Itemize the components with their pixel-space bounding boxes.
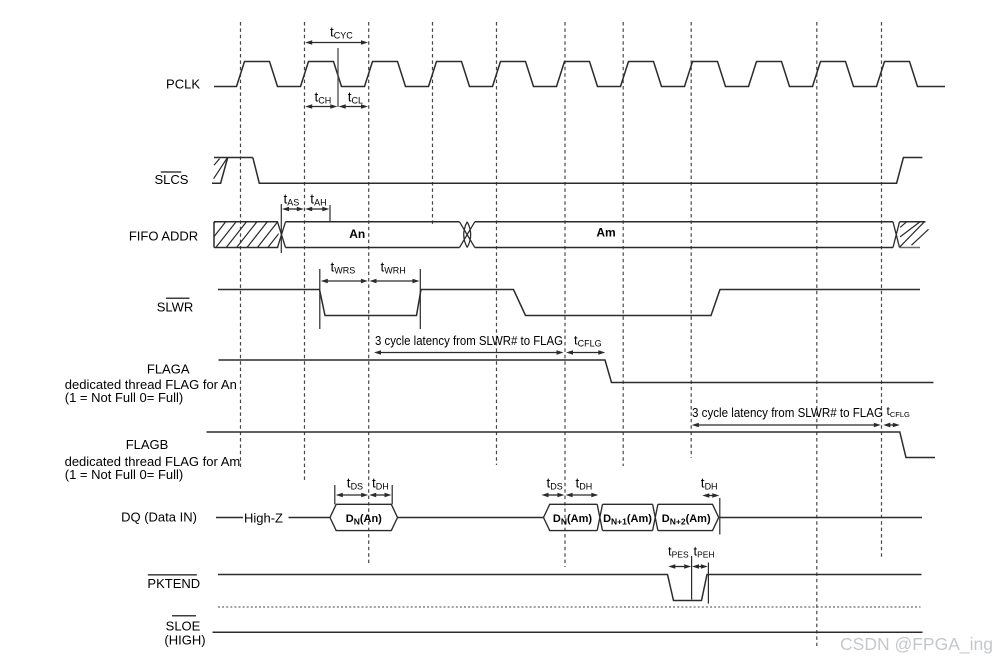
wire tWRH tick: [419, 269, 421, 329]
svg-text:PCLK: PCLK: [166, 77, 200, 92]
svg-text:SLCS: SLCS: [155, 172, 189, 187]
wire tCFLG B arrow: [889, 424, 895, 426]
wire gridline-6 dashed vertical x=565: [564, 22, 566, 567]
svg-text:FLAGB: FLAGB: [126, 437, 169, 452]
svg-text:3 cycle latency from SLWR# to: 3 cycle latency from SLWR# to FLAG: [692, 406, 883, 420]
wire SLWR waveform: [218, 290, 920, 316]
wire tWRS arrow: [326, 280, 362, 282]
wire DQ line between box1 and box2: [398, 517, 544, 519]
wire DQ transition X box2-box3: [597, 504, 602, 530]
svg-text:DN+1(Am): DN+1(Am): [603, 513, 652, 527]
svg-text:Am: Am: [596, 226, 615, 240]
svg-text:DN+2(Am): DN+2(Am): [662, 513, 711, 527]
wire tAS arrow: [288, 208, 299, 210]
wire tAH arrow: [311, 208, 324, 210]
wire gridline-10 dashed vertical x=882: [881, 22, 883, 558]
wire FIFO ADDR Am box: [475, 222, 893, 248]
wire FIFO ADDR braid transition X2: [460, 222, 475, 248]
wire tPES divider tick: [691, 556, 693, 600]
wire DQ tDS1 tick: [334, 485, 336, 504]
svg-text:High-Z: High-Z: [244, 511, 283, 526]
svg-text:PKTEND: PKTEND: [147, 576, 200, 591]
wire gridline-8 dashed vertical x=691: [690, 22, 692, 458]
svg-text:DN(An): DN(An): [346, 513, 382, 527]
wire SLOE overline: [172, 615, 196, 617]
wire tCYC arrow: [311, 42, 363, 44]
wire PKTEND waveform: [218, 575, 922, 601]
svg-text:An: An: [349, 227, 365, 241]
svg-text:(1 = Not Full 0= Full): (1 = Not Full 0= Full): [65, 390, 184, 405]
wire tPEH end tick: [707, 563, 709, 604]
wire FIFO ADDR transition X1: [278, 222, 286, 248]
wire DQ data box3 DN+1(Am): [603, 504, 653, 530]
wire tCL arrow: [344, 106, 362, 108]
wire SLCS falling edge and low run: [253, 158, 923, 184]
wire SLWR overline: [166, 297, 190, 299]
wire clock duty divider tick: [337, 48, 339, 107]
wire DQ data box1 DN(An): [330, 504, 398, 530]
wire DQ highZ line right: [289, 517, 331, 519]
svg-text:FIFO ADDR: FIFO ADDR: [129, 229, 198, 244]
wire DQ highZ line left: [216, 517, 243, 519]
wire tDH1 arrow: [375, 494, 386, 496]
wire DQ line after box4: [720, 517, 922, 519]
wire tCFLG A arrow: [572, 352, 600, 354]
wire DQ tDH1 tick: [391, 485, 393, 504]
wire gridline-9 dashed vertical x=817: [816, 22, 818, 646]
svg-text:(1 = Not Full 0= Full): (1 = Not Full 0= Full): [65, 467, 184, 482]
svg-text:CSDN @FPGA_ing: CSDN @FPGA_ing: [840, 634, 993, 655]
wire PKTEND dotted baseline: [218, 606, 921, 608]
wire SLCS start dont-care region: [212, 158, 228, 184]
wire FIFO ADDR An box: [286, 222, 460, 248]
wire SLCS overline: [161, 171, 182, 173]
wire tDS1 arrow: [341, 494, 362, 496]
wire gridline-5 dashed vertical x=496: [496, 22, 498, 465]
svg-text:(HIGH): (HIGH): [164, 632, 205, 647]
wire tAS reference tick: [280, 204, 282, 253]
wire FLAGB waveform: [207, 432, 936, 458]
wire gridline-4 dashed vertical x=432: [432, 22, 434, 224]
svg-text:3 cycle latency from SLWR# to: 3 cycle latency from SLWR# to FLAG: [375, 334, 563, 348]
wire tWRS tick: [319, 269, 321, 329]
wire FIFO ADDR right hatched box: [900, 221, 926, 223]
wire FIFO ADDR transition X3: [893, 222, 900, 248]
svg-text:DN(Am): DN(Am): [553, 513, 592, 527]
wire tPEH arrow: [698, 566, 703, 568]
svg-text:FLAGA: FLAGA: [147, 362, 190, 377]
wire FLAGA waveform: [219, 360, 934, 383]
svg-text:SLWR: SLWR: [157, 300, 194, 315]
wire PKTEND overline: [148, 574, 197, 576]
wire gridline-1 dashed vertical x=240: [240, 22, 242, 467]
wire gridline-7 dashed vertical x=623: [622, 22, 624, 466]
wire SLOE waveform: [213, 631, 923, 633]
wire tDH3 arrow: [708, 495, 714, 497]
wire tAH end tick: [329, 205, 331, 221]
wire tDH2 arrow: [571, 494, 593, 496]
svg-text:DQ (Data IN): DQ (Data IN): [121, 510, 197, 525]
wire gridline-3 dashed vertical x=369: [368, 22, 370, 566]
wire FLAGA latency arrow: [380, 352, 559, 354]
wire tDH3 tick: [719, 498, 721, 535]
wire tCH arrow: [311, 106, 332, 108]
wire tPES arrow: [674, 566, 686, 568]
wire PCLK clock waveform: [214, 62, 945, 87]
wire DQ data box4 DN+2(Am): [658, 504, 719, 530]
wire gridline-2 dashed vertical x=304: [304, 22, 306, 480]
wire tWRH arrow: [375, 280, 414, 282]
wire DQ data box2 DN(Am): [544, 504, 598, 530]
svg-text:SLOE: SLOE: [166, 619, 201, 634]
wire FLAGB latency arrow: [697, 424, 875, 426]
wire DQ transition X box3-box4: [653, 504, 658, 530]
wire tDS2 arrow: [547, 494, 559, 496]
